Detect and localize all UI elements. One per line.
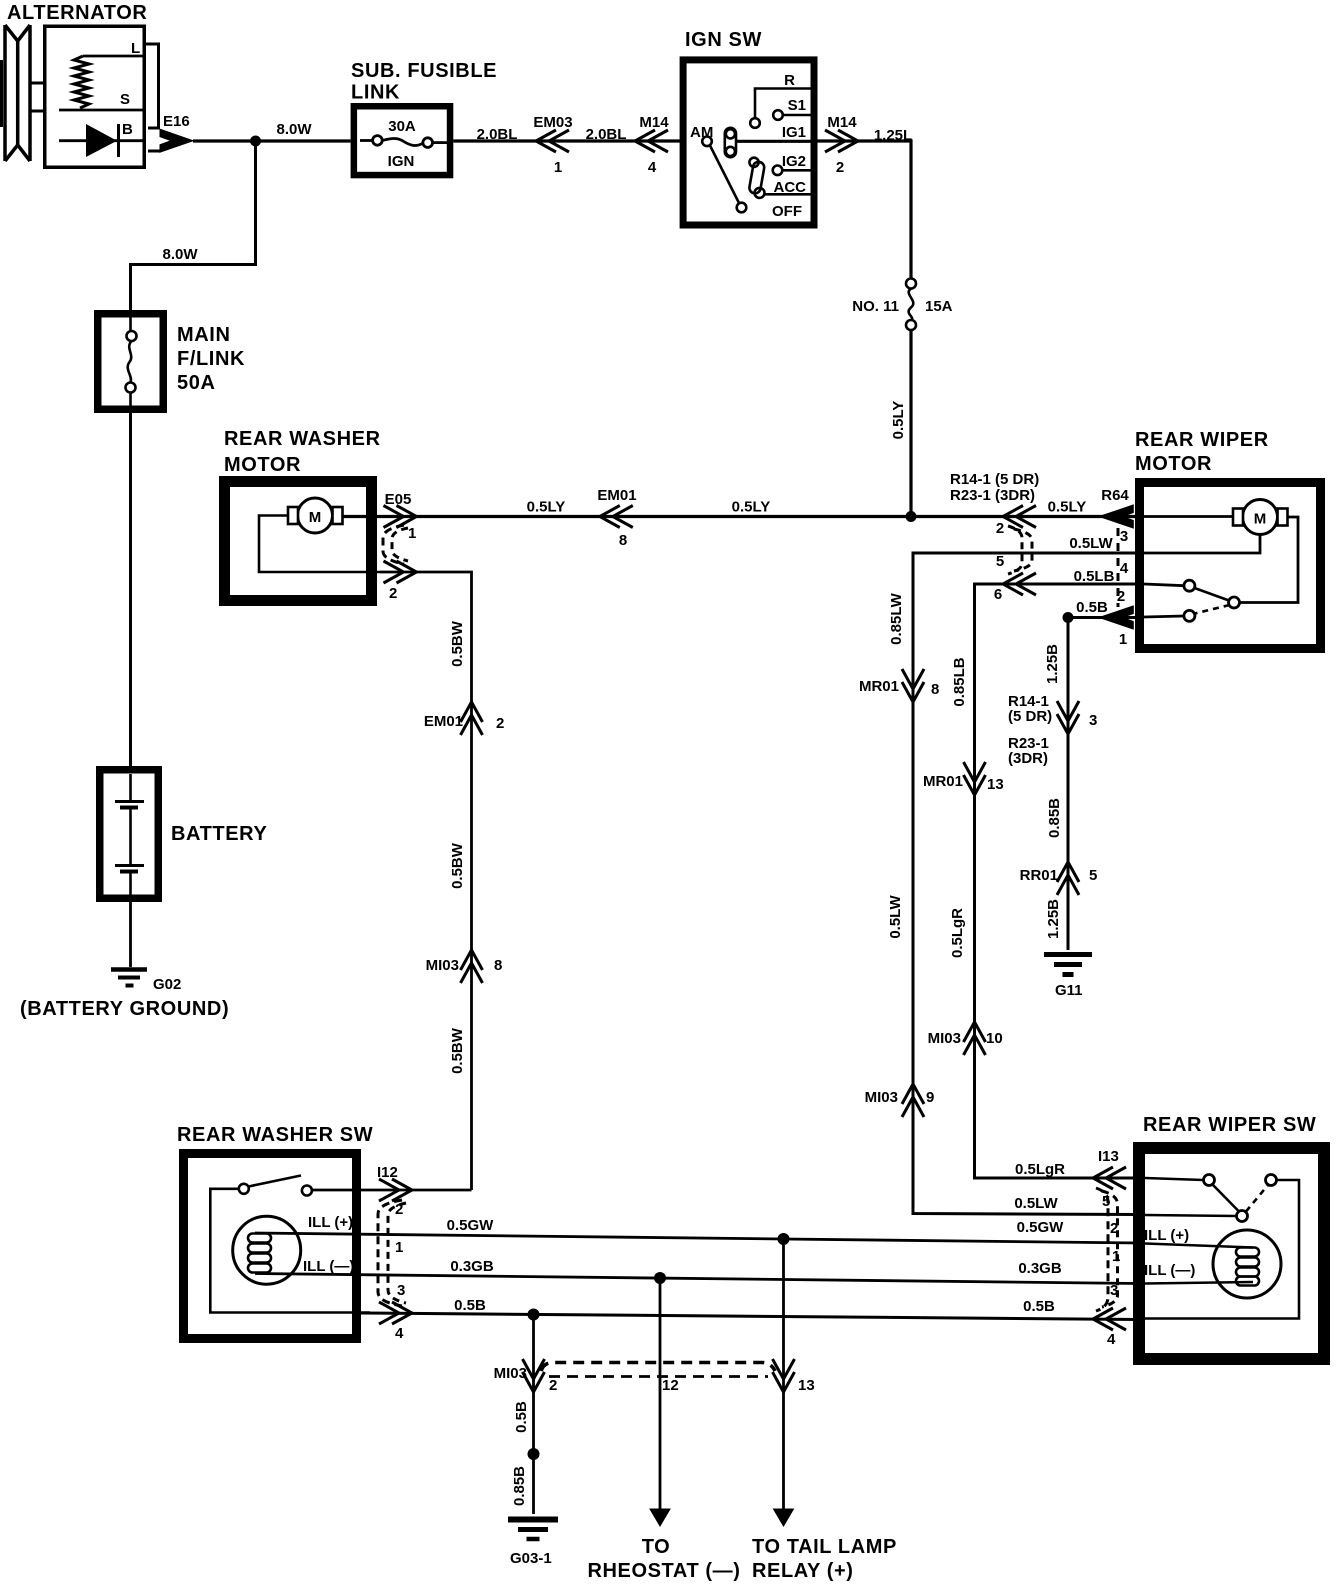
- IGN SW IG1 wire: [736, 140, 817, 143]
- svg-text:NO. 11: NO. 11: [852, 298, 899, 315]
- fuse symbol: [360, 136, 447, 148]
- connector MR01-13 chevron: [964, 762, 986, 795]
- svg-text:MI03: MI03: [928, 1030, 961, 1047]
- svg-text:TO: TO: [642, 1536, 671, 1558]
- svg-text:2: 2: [1117, 588, 1125, 605]
- IGN SW switch arm: [710, 146, 739, 204]
- wire 0.5LB wiper motor to wiper switch: [975, 584, 1140, 1178]
- svg-text:2: 2: [389, 585, 397, 602]
- alternator rotor coil: [74, 56, 89, 108]
- alternator S wire: [59, 109, 143, 112]
- svg-text:R: R: [784, 72, 795, 89]
- svg-text:REAR WASHER SW: REAR WASHER SW: [177, 1124, 373, 1146]
- alternator pulley: [2, 25, 31, 161]
- svg-text:R64: R64: [1101, 487, 1129, 504]
- svg-text:MOTOR: MOTOR: [1135, 453, 1212, 475]
- wire E16 to fusible link: [193, 139, 351, 142]
- wire 0.5B wiper motor to ground G11: [1068, 618, 1139, 951]
- washer sw pin2 wire: [312, 1189, 472, 1192]
- connector MI03-8 chevron: [461, 950, 483, 983]
- wire junction to main f/link: [131, 141, 256, 310]
- svg-text:MOTOR: MOTOR: [224, 454, 301, 476]
- wiper sw lamp coil: [1236, 1248, 1259, 1286]
- svg-text:2: 2: [549, 1377, 557, 1394]
- svg-text:9: 9: [926, 1089, 934, 1106]
- svg-text:0.5LY: 0.5LY: [527, 499, 566, 516]
- svg-text:0.85LB: 0.85LB: [951, 657, 968, 706]
- svg-text:F/LINK: F/LINK: [177, 348, 245, 370]
- svg-text:1: 1: [408, 525, 416, 542]
- wiper motor pin1 wire internal: [1144, 616, 1184, 617]
- svg-text:0.5LW: 0.5LW: [1014, 1195, 1058, 1212]
- svg-text:0.5LB: 0.5LB: [1074, 568, 1115, 585]
- svg-text:IGN: IGN: [388, 153, 415, 170]
- svg-text:1: 1: [1119, 631, 1127, 648]
- connector MI03-10 chevron: [964, 1022, 986, 1055]
- connector I12 pin2 chevron: [379, 1179, 412, 1201]
- svg-text:8.0W: 8.0W: [162, 246, 198, 263]
- svg-text:2: 2: [996, 520, 1004, 537]
- svg-text:3: 3: [1089, 712, 1097, 729]
- MI03 dashed link: [541, 1363, 775, 1372]
- svg-text:30A: 30A: [388, 118, 416, 135]
- washer sw lamp: [233, 1216, 301, 1284]
- svg-text:IG2: IG2: [782, 153, 806, 170]
- svg-text:MI03: MI03: [865, 1089, 898, 1106]
- svg-text:0.5B: 0.5B: [1076, 599, 1108, 616]
- connector MR01-8 chevron: [902, 669, 924, 702]
- svg-text:REAR WASHER: REAR WASHER: [224, 428, 381, 450]
- svg-text:0.5LY: 0.5LY: [890, 401, 907, 440]
- svg-text:G03-1: G03-1: [510, 1550, 552, 1567]
- IGN SW box: [683, 60, 814, 225]
- svg-text:2: 2: [836, 159, 844, 176]
- main f/link box: [98, 314, 164, 410]
- svg-text:0.5LW: 0.5LW: [887, 894, 904, 938]
- wiper motor switch arm solid: [1195, 588, 1230, 601]
- svg-text:LINK: LINK: [351, 82, 400, 104]
- svg-text:ILL (—): ILL (—): [1144, 1262, 1195, 1279]
- wiper motor pin3 wire: [1144, 515, 1233, 518]
- svg-text:I13: I13: [1098, 1148, 1119, 1165]
- wire battery to ground: [129, 898, 132, 967]
- svg-text:SUB. FUSIBLE: SUB. FUSIBLE: [351, 60, 497, 82]
- alternator shaft stubs: [30, 83, 43, 111]
- wiper sw contacts: [1204, 1175, 1215, 1186]
- washer sw lamp coil: [248, 1234, 271, 1273]
- wiper motor switch arm dashed: [1195, 605, 1230, 614]
- svg-text:0.3GB: 0.3GB: [1018, 1260, 1062, 1277]
- wiper motor pin2 wire internal: [1144, 584, 1184, 586]
- svg-text:13: 13: [798, 1377, 815, 1394]
- wire fusible link to IGN SW: [453, 139, 683, 142]
- svg-text:0.5BW: 0.5BW: [449, 1027, 466, 1074]
- wiper sw ILL- wire: [1145, 1282, 1253, 1284]
- connector R64 pin3 arrow: [1099, 505, 1133, 528]
- svg-text:4: 4: [395, 1325, 404, 1342]
- svg-text:EM01: EM01: [597, 487, 636, 504]
- ground G03-1: [508, 1520, 558, 1540]
- wiper sw pin5 wire: [1145, 1178, 1204, 1180]
- svg-text:50A: 50A: [177, 372, 216, 394]
- washer sw internal loop: [210, 1189, 370, 1313]
- connector EM01 chevron: [600, 506, 633, 528]
- svg-text:0.5GW: 0.5GW: [447, 1217, 495, 1234]
- wire 0.5B washer sw to wiper sw: [361, 1313, 1139, 1320]
- svg-text:EM03: EM03: [533, 114, 572, 131]
- svg-text:1.25L: 1.25L: [874, 127, 912, 144]
- junction node: [250, 136, 261, 147]
- connector R64 dashed link: [1117, 528, 1120, 607]
- sub fusible link box: [354, 106, 450, 175]
- junction node: [654, 1272, 666, 1284]
- connector R64 pin1 arrow: [1099, 606, 1133, 629]
- wiper sw ILL+ wire: [1145, 1244, 1253, 1248]
- wiper sw lamp: [1213, 1230, 1281, 1298]
- junction node: [778, 1233, 790, 1245]
- svg-text:0.5B: 0.5B: [1023, 1298, 1055, 1315]
- svg-text:IGN SW: IGN SW: [685, 29, 762, 51]
- svg-text:M: M: [309, 509, 322, 526]
- wire 13 to tail lamp relay: [782, 1239, 785, 1510]
- svg-text:RHEOSTAT (—): RHEOSTAT (—): [587, 1560, 740, 1582]
- wiper motor switch feed: [1240, 517, 1299, 603]
- alternator box: [45, 26, 145, 167]
- connector I13 pin5 chevron: [1093, 1167, 1126, 1189]
- svg-text:0.5B: 0.5B: [513, 1401, 530, 1433]
- wire f/link to battery: [129, 409, 132, 770]
- alternator diode: [59, 139, 143, 142]
- rear washer sw box: [184, 1154, 357, 1339]
- arrow to rheostat: [650, 1509, 670, 1526]
- wiper motor switch contacts: [1184, 580, 1195, 591]
- junction node: [906, 511, 917, 522]
- svg-text:(5 DR): (5 DR): [1008, 708, 1052, 725]
- svg-text:MAIN: MAIN: [177, 324, 231, 346]
- svg-text:G11: G11: [1055, 982, 1083, 999]
- wire 0.5LW wiper motor to wiper switch: [913, 553, 1139, 1215]
- svg-text:2.0BL: 2.0BL: [477, 126, 518, 143]
- connector MI03-13 chevron: [773, 1359, 795, 1392]
- connector R14 pin6 chevron: [1003, 573, 1036, 595]
- connector E05 pin1 chevron: [384, 506, 417, 528]
- svg-text:L: L: [131, 40, 140, 57]
- battery cells: [115, 774, 144, 898]
- svg-text:MR01: MR01: [859, 678, 899, 695]
- connector E05 pin2 chevron: [384, 561, 417, 583]
- connector I13 dashed link: [1096, 1188, 1108, 1311]
- arrow to tail lamp relay: [774, 1509, 794, 1526]
- svg-text:0.5LgR: 0.5LgR: [949, 908, 966, 958]
- svg-text:0.5GW: 0.5GW: [1017, 1219, 1065, 1236]
- svg-text:0.5B: 0.5B: [454, 1297, 486, 1314]
- wire 0.5GW washer sw to wiper sw: [255, 1233, 1139, 1243]
- connector R14 pin2 chevron: [1003, 506, 1036, 528]
- wire fuse down to junction: [909, 330, 912, 517]
- svg-text:2.0BL: 2.0BL: [586, 126, 627, 143]
- svg-text:0.5BW: 0.5BW: [449, 842, 466, 889]
- connector MI03-2 chevron: [523, 1359, 545, 1392]
- svg-text:TO TAIL LAMP: TO TAIL LAMP: [752, 1536, 897, 1558]
- ground G11: [1044, 955, 1092, 975]
- svg-text:3: 3: [1110, 1282, 1118, 1299]
- svg-text:MR01: MR01: [923, 773, 963, 790]
- svg-text:0.5BW: 0.5BW: [449, 620, 466, 667]
- washer motor internal loop: [259, 516, 380, 573]
- wiper motor M circle: [1243, 500, 1278, 535]
- svg-text:REAR WIPER SW: REAR WIPER SW: [1143, 1114, 1316, 1136]
- washer sw contacts: [239, 1184, 249, 1194]
- svg-text:RELAY (+): RELAY (+): [752, 1560, 854, 1582]
- svg-text:0.5LY: 0.5LY: [732, 499, 771, 516]
- connector E05 dashed link: [383, 525, 404, 564]
- rear wiper sw box: [1139, 1148, 1324, 1359]
- junction node: [528, 1309, 540, 1321]
- wiper motor brushes: [1233, 509, 1243, 526]
- svg-text:1: 1: [395, 1239, 403, 1256]
- connector MI03-9 chevron: [902, 1084, 924, 1117]
- wire 12 to rheostat: [659, 1278, 662, 1510]
- svg-text:OFF: OFF: [772, 203, 802, 220]
- washer motor brushes: [288, 507, 298, 524]
- svg-text:ILL (+): ILL (+): [1144, 1227, 1189, 1244]
- wire 0.3GB washer sw to wiper sw: [255, 1274, 1139, 1284]
- washer motor pin1 wire: [343, 515, 1140, 518]
- connector R14 dashed link: [1008, 526, 1022, 574]
- wiper motor pin4 wire internal: [1144, 535, 1260, 554]
- svg-text:0.5LY: 0.5LY: [1048, 499, 1087, 516]
- svg-text:5: 5: [996, 553, 1004, 570]
- wiper sw arm dashed: [1246, 1185, 1268, 1212]
- wire 0.5B down to ground G03-1: [532, 1315, 535, 1515]
- svg-text:M: M: [1254, 511, 1267, 528]
- svg-text:4: 4: [648, 159, 657, 176]
- connector E16 arrow: [160, 129, 193, 152]
- svg-text:10: 10: [986, 1030, 1003, 1047]
- connector I12 dashed link: [378, 1200, 402, 1306]
- svg-text:(BATTERY GROUND): (BATTERY GROUND): [20, 998, 229, 1020]
- svg-text:M14: M14: [639, 114, 669, 131]
- svg-text:E16: E16: [163, 113, 190, 130]
- svg-text:12: 12: [662, 1377, 679, 1394]
- svg-text:S1: S1: [788, 97, 806, 114]
- svg-text:RR01: RR01: [1020, 867, 1058, 884]
- svg-text:0.3GB: 0.3GB: [450, 1258, 494, 1275]
- alternator external L bracket: [146, 44, 159, 128]
- svg-text:G02: G02: [153, 976, 181, 993]
- svg-text:3: 3: [1120, 528, 1128, 545]
- battery box: [100, 770, 159, 899]
- svg-text:1.25B: 1.25B: [1045, 899, 1062, 939]
- washer motor M circle: [298, 498, 333, 533]
- svg-text:13: 13: [987, 776, 1004, 793]
- svg-text:8: 8: [619, 532, 627, 549]
- svg-text:2: 2: [1110, 1220, 1118, 1237]
- ground G02: [111, 970, 147, 986]
- svg-text:1: 1: [554, 159, 562, 176]
- connector I13 pin4 chevron: [1093, 1308, 1126, 1330]
- junction node: [528, 1448, 540, 1460]
- svg-text:0.85B: 0.85B: [511, 1466, 528, 1506]
- rear wiper motor box: [1140, 483, 1321, 649]
- svg-text:MI03: MI03: [426, 957, 459, 974]
- IGN SW contact capsule: [725, 128, 736, 157]
- main f/link fuse symbol: [126, 314, 137, 409]
- svg-text:0.5LgR: 0.5LgR: [1015, 1161, 1065, 1178]
- svg-text:S: S: [120, 91, 130, 108]
- connector M14 chevron: [825, 130, 858, 152]
- svg-text:0.5LW: 0.5LW: [1069, 535, 1113, 552]
- svg-text:0.85LW: 0.85LW: [888, 592, 905, 645]
- svg-text:R14-1 (5 DR): R14-1 (5 DR): [950, 471, 1039, 488]
- svg-text:8.0W: 8.0W: [276, 121, 312, 138]
- svg-text:1.25B: 1.25B: [1044, 644, 1061, 684]
- washer motor pin2 wire down: [380, 572, 472, 1190]
- svg-text:EM01: EM01: [424, 713, 463, 730]
- svg-text:IG1: IG1: [782, 124, 806, 141]
- wiper sw pin2 wire: [1145, 1215, 1237, 1216]
- svg-text:ILL (+): ILL (+): [308, 1214, 353, 1231]
- svg-text:0.85B: 0.85B: [1046, 798, 1063, 838]
- svg-text:B: B: [122, 121, 133, 138]
- connector RR01-5 chevron: [1057, 862, 1079, 895]
- wire IGN SW to fuse: [818, 141, 912, 279]
- svg-text:8: 8: [931, 681, 939, 698]
- rear washer motor box: [225, 482, 372, 601]
- wiper sw arm solid: [1213, 1185, 1240, 1212]
- svg-text:ALTERNATOR: ALTERNATOR: [7, 2, 147, 24]
- svg-text:ILL (—): ILL (—): [303, 1258, 354, 1275]
- fuse NO.11 15A: [906, 279, 916, 289]
- svg-text:BATTERY: BATTERY: [171, 823, 267, 845]
- IGN SW ACC capsule: [749, 161, 766, 194]
- wiper sw return loop: [1145, 1180, 1299, 1319]
- svg-text:8: 8: [494, 957, 502, 974]
- svg-text:5: 5: [1089, 867, 1097, 884]
- svg-text:3: 3: [397, 1282, 405, 1299]
- svg-text:4: 4: [1107, 1331, 1116, 1348]
- svg-text:(3DR): (3DR): [1008, 750, 1048, 767]
- svg-text:4: 4: [1120, 560, 1129, 577]
- connector EM03 chevron: [536, 130, 569, 152]
- washer sw arm: [249, 1176, 302, 1187]
- connector R14-3 chevron: [1057, 701, 1079, 734]
- svg-text:6: 6: [994, 586, 1002, 603]
- svg-text:REAR WIPER: REAR WIPER: [1135, 429, 1269, 451]
- svg-text:R23-1 (3DR): R23-1 (3DR): [950, 487, 1035, 504]
- connector EM01-2 chevron: [461, 702, 483, 735]
- svg-text:M14: M14: [827, 114, 857, 131]
- junction node: [1063, 612, 1074, 623]
- svg-text:15A: 15A: [925, 298, 953, 315]
- svg-text:MI03: MI03: [494, 1365, 527, 1382]
- svg-text:2: 2: [496, 715, 504, 732]
- svg-text:1: 1: [1112, 1248, 1120, 1265]
- alternator L wire: [83, 55, 143, 58]
- connector M14 chevron: [635, 130, 668, 152]
- connector I12 pin4 chevron: [379, 1302, 412, 1324]
